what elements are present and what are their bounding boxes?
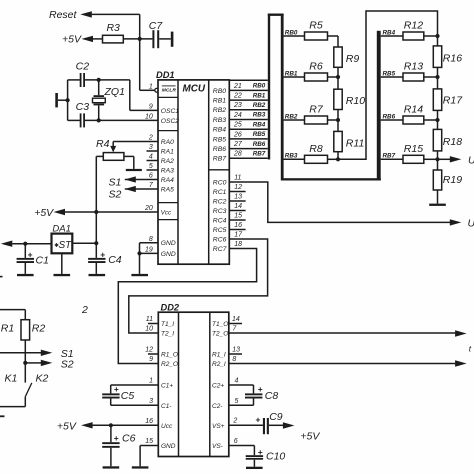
svg-text:C8: C8 — [265, 390, 279, 402]
svg-text:R1_I: R1_I — [212, 352, 226, 359]
svg-text:RB2: RB2 — [253, 102, 266, 109]
svg-text:RB4: RB4 — [383, 29, 396, 36]
svg-text:VS+: VS+ — [212, 423, 225, 430]
svg-text:11: 11 — [234, 175, 241, 182]
svg-text:RB2: RB2 — [213, 107, 226, 114]
svg-text:4: 4 — [149, 154, 153, 161]
svg-text:R16: R16 — [443, 53, 462, 65]
svg-text:C3: C3 — [76, 101, 90, 113]
svg-text:24: 24 — [233, 112, 242, 119]
svg-text:C7: C7 — [149, 20, 164, 32]
svg-text:R2: R2 — [32, 323, 46, 335]
svg-text:C1-: C1- — [161, 403, 172, 410]
svg-text:RC5: RC5 — [213, 227, 227, 234]
svg-text:R8: R8 — [309, 143, 323, 155]
svg-text:20: 20 — [144, 205, 153, 212]
svg-text:C4: C4 — [108, 254, 122, 266]
svg-text:23: 23 — [233, 102, 242, 109]
svg-text:15: 15 — [145, 438, 153, 445]
svg-text:17: 17 — [234, 232, 243, 239]
svg-text:26: 26 — [233, 131, 242, 138]
svg-text:GND: GND — [161, 251, 176, 258]
svg-text:OSC2: OSC2 — [161, 118, 179, 125]
svg-text:DA1: DA1 — [52, 223, 70, 234]
svg-text:+5V: +5V — [300, 430, 320, 442]
svg-text:K2: K2 — [36, 373, 49, 385]
svg-text:25: 25 — [233, 122, 242, 129]
svg-text:12: 12 — [234, 184, 242, 191]
svg-text:RB0: RB0 — [213, 88, 226, 95]
svg-text:R1: R1 — [1, 323, 14, 335]
svg-text:RB2: RB2 — [285, 113, 298, 120]
svg-text:+5V: +5V — [57, 421, 77, 433]
svg-text:RB4: RB4 — [213, 127, 226, 134]
svg-text:RA2: RA2 — [161, 158, 174, 165]
svg-text:+: + — [28, 249, 33, 259]
svg-text:15: 15 — [234, 213, 242, 220]
svg-text:GND: GND — [161, 240, 176, 247]
svg-text:Vcc: Vcc — [161, 209, 172, 216]
svg-text:R2_O: R2_O — [161, 361, 178, 368]
svg-text:C9: C9 — [269, 411, 283, 423]
svg-text:16: 16 — [234, 222, 242, 229]
svg-text:RB7: RB7 — [253, 151, 266, 158]
svg-text:R14: R14 — [404, 104, 423, 116]
svg-text:14: 14 — [232, 316, 240, 323]
svg-text:14: 14 — [234, 203, 242, 210]
svg-text:RB5: RB5 — [253, 131, 266, 138]
svg-text:Reset: Reset — [49, 9, 78, 21]
svg-text:RC4: RC4 — [213, 217, 227, 224]
svg-text:R15: R15 — [404, 143, 423, 155]
svg-text:R19: R19 — [443, 174, 462, 186]
svg-text:2: 2 — [148, 135, 153, 142]
svg-text:K1: K1 — [5, 373, 18, 385]
svg-text:DD1: DD1 — [156, 70, 175, 80]
svg-text:RB7: RB7 — [213, 156, 226, 163]
svg-text:8: 8 — [232, 356, 236, 363]
svg-text:RB6: RB6 — [213, 146, 226, 153]
svg-text:R18: R18 — [443, 136, 462, 148]
svg-text:U: U — [468, 217, 474, 229]
svg-text:R7: R7 — [309, 104, 324, 116]
svg-text:2: 2 — [81, 304, 88, 316]
svg-text:1: 1 — [149, 378, 153, 385]
svg-text:Ucc: Ucc — [161, 423, 173, 430]
svg-text:3: 3 — [149, 144, 153, 151]
svg-text:GND: GND — [161, 443, 176, 450]
svg-text:C1: C1 — [36, 254, 49, 266]
svg-text:+5V: +5V — [62, 34, 82, 46]
svg-text:28: 28 — [233, 151, 242, 158]
svg-text:RA3: RA3 — [161, 167, 174, 174]
svg-text:RC2: RC2 — [213, 198, 227, 205]
svg-text:13: 13 — [232, 347, 240, 354]
svg-text:11: 11 — [146, 316, 153, 323]
svg-text:4: 4 — [235, 378, 239, 385]
svg-text:S1: S1 — [109, 177, 122, 189]
svg-text:RB0: RB0 — [285, 29, 298, 36]
svg-text:RB6: RB6 — [383, 113, 396, 120]
svg-text:RC1: RC1 — [213, 189, 227, 196]
svg-text:RC0: RC0 — [213, 179, 227, 186]
svg-text:6: 6 — [149, 173, 153, 180]
svg-text:RB4: RB4 — [253, 121, 266, 128]
svg-text:R4: R4 — [96, 138, 110, 150]
svg-text:R11: R11 — [346, 138, 364, 150]
svg-text:+: + — [258, 384, 263, 394]
svg-text:+: + — [114, 384, 119, 394]
svg-text:S2: S2 — [109, 189, 122, 201]
svg-text:R12: R12 — [404, 20, 423, 32]
svg-text:OSC1: OSC1 — [161, 108, 179, 115]
svg-text:C6: C6 — [122, 433, 136, 445]
svg-text:ST: ST — [59, 240, 73, 251]
svg-text:C10: C10 — [266, 450, 285, 462]
svg-text:RA1: RA1 — [161, 148, 174, 155]
svg-text:6: 6 — [234, 438, 238, 445]
svg-text:T2_I: T2_I — [161, 331, 174, 338]
svg-text:R10: R10 — [346, 95, 365, 107]
svg-text:16: 16 — [145, 418, 153, 425]
svg-text:RB5: RB5 — [383, 70, 396, 77]
svg-text:R9: R9 — [346, 53, 360, 65]
svg-text:RA4: RA4 — [161, 177, 174, 184]
svg-text:RA5: RA5 — [161, 186, 174, 193]
svg-text:R17: R17 — [443, 95, 463, 107]
svg-text:R6: R6 — [309, 61, 323, 73]
svg-text:RC6: RC6 — [213, 236, 227, 243]
svg-text:C5: C5 — [121, 390, 135, 402]
svg-text:1: 1 — [149, 83, 153, 90]
svg-text:3: 3 — [149, 398, 153, 405]
svg-text:12: 12 — [145, 347, 153, 354]
svg-text:+: + — [256, 414, 261, 424]
svg-text:+: + — [100, 249, 105, 259]
svg-text:+5V: +5V — [34, 207, 54, 219]
svg-text:U: U — [468, 155, 474, 167]
svg-text:18: 18 — [234, 241, 242, 248]
svg-text:MCLR: MCLR — [162, 88, 177, 94]
svg-text:RB0: RB0 — [253, 83, 266, 90]
svg-text:T2_O: T2_O — [212, 331, 228, 338]
svg-text:13: 13 — [234, 194, 242, 201]
svg-text:5: 5 — [149, 163, 153, 170]
svg-text:VS-: VS- — [212, 443, 224, 450]
svg-text:R3: R3 — [106, 22, 120, 34]
svg-text:RC7: RC7 — [213, 246, 227, 253]
svg-text:R2_I: R2_I — [212, 361, 226, 368]
svg-text:C2-: C2- — [212, 403, 223, 410]
svg-text:9: 9 — [149, 103, 153, 110]
svg-text:22: 22 — [233, 93, 242, 100]
svg-text:RB7: RB7 — [383, 153, 396, 160]
svg-text:R5: R5 — [309, 20, 323, 32]
svg-text:RC3: RC3 — [213, 208, 227, 215]
svg-text:RB3: RB3 — [285, 153, 298, 160]
svg-text:9: 9 — [149, 356, 153, 363]
svg-text:5: 5 — [235, 398, 239, 405]
svg-text:C1+: C1+ — [161, 383, 173, 390]
svg-text:21: 21 — [233, 83, 242, 90]
svg-text:RB6: RB6 — [253, 141, 266, 148]
svg-text:DD2: DD2 — [161, 303, 180, 313]
svg-text:19: 19 — [145, 246, 153, 253]
svg-text:10: 10 — [145, 326, 153, 333]
svg-text:R1_O: R1_O — [161, 352, 178, 359]
svg-text:RB3: RB3 — [213, 117, 226, 124]
svg-text:T1_I: T1_I — [161, 321, 174, 328]
svg-text:R13: R13 — [404, 61, 423, 73]
svg-text:T1_O: T1_O — [212, 321, 228, 328]
svg-text:S2: S2 — [61, 359, 74, 371]
svg-text:8: 8 — [149, 236, 153, 243]
svg-text:RB3: RB3 — [253, 112, 266, 119]
svg-text:27: 27 — [233, 141, 243, 148]
svg-text:MCU: MCU — [183, 84, 206, 95]
svg-text:+: + — [114, 433, 119, 443]
svg-text:2: 2 — [232, 418, 237, 425]
svg-text:+: + — [258, 447, 263, 457]
svg-text:RB5: RB5 — [213, 136, 226, 143]
svg-text:RB1: RB1 — [285, 70, 298, 77]
svg-text:RB1: RB1 — [253, 92, 266, 99]
svg-text:RA0: RA0 — [161, 139, 174, 146]
svg-text:C2+: C2+ — [212, 383, 224, 390]
svg-text:RB1: RB1 — [213, 98, 226, 105]
svg-text:ZQ1: ZQ1 — [104, 86, 125, 98]
svg-text:10: 10 — [145, 113, 153, 120]
svg-text:C2: C2 — [76, 61, 90, 73]
